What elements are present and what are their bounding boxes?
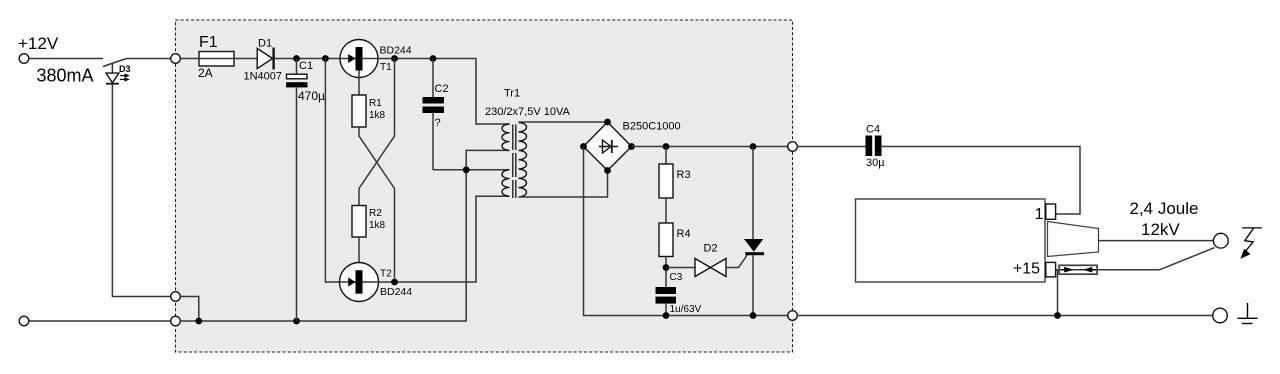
resistor R1 1k8 [352,95,386,127]
wire secondary bottom to bridge bottom corner [519,171,608,198]
svg-text:2,4 Joule: 2,4 Joule [1130,199,1199,218]
svg-text:+15: +15 [1013,261,1040,278]
wire center tap to primary top winding bottom [466,150,509,169]
svg-text:BD244: BD244 [380,45,412,57]
transistor T2 BD244 [340,263,413,302]
node junction ground rail / pin +15 [1054,312,1061,319]
primary winding lower [502,170,510,196]
node junction R4 / D2 / C3 [663,264,670,271]
wire +12V terminal to switch [29,58,103,60]
capacitor C3 1u/63V [656,272,702,316]
wire 0V terminal to border [29,320,171,322]
svg-text:1k8: 1k8 [369,220,386,231]
resistor R2 1k8 [352,206,386,238]
node HV output terminal [1213,233,1228,248]
node junction rail / T2 emitter branch [322,55,329,62]
wire T1 to transformer primary top [378,59,510,125]
resistor R3 [659,147,691,199]
svg-text:+12V: +12V [18,34,59,53]
wire border terminal to bottom rail [180,297,199,322]
wire cross-coupling rail to R2 [359,59,395,206]
svg-text:30µ: 30µ [866,157,885,169]
node junction bottom rail / C1 [293,318,300,325]
wire cross-coupling R1 to T2 collector node [359,127,395,282]
node +12V input terminal [18,34,94,86]
core [513,125,516,199]
wire border terminal to fuse [180,58,199,60]
svg-text:T2: T2 [380,269,392,280]
node junction rail / C1 [293,55,300,62]
wire R4 to C3/D2 node [665,257,667,288]
ignition coil body [856,199,1046,282]
pin 1 [1035,204,1056,223]
node junction center tap [463,166,470,173]
node left border terminal (0V) [171,316,181,326]
wire bridge minus to bottom right rail [584,147,792,316]
primary winding upper [502,124,510,150]
wire R2 to T2 [358,237,360,270]
svg-text:R4: R4 [677,228,691,240]
transistor T1 BD244 [340,40,412,96]
svg-text:2A: 2A [198,66,213,80]
svg-text:1: 1 [1035,206,1044,223]
thyristor Th1 [744,147,764,316]
fuse F1 [198,34,257,80]
wire bridge plus rail to border [632,146,788,148]
svg-text:Tr1: Tr1 [504,88,520,100]
wire pin +15 down to ground rail [1057,270,1059,316]
wire pin +15 through spark gap to diagonal [1056,269,1160,271]
node junction T2 collector / cross-coupling [391,279,398,286]
svg-text:C1: C1 [299,60,313,72]
svg-text:B250C1000: B250C1000 [623,121,681,133]
wire center tap line [433,169,510,171]
wire T2 emitter branch [325,59,340,283]
node ground output terminal [1213,308,1228,323]
svg-text:380mA: 380mA [37,66,94,86]
HV tower output [1048,222,1099,257]
svg-text:1N4007: 1N4007 [244,71,283,83]
ground symbol [1238,303,1258,324]
svg-text:BD244: BD244 [380,286,412,298]
node junction rail / C2 [430,55,437,62]
svg-text:C4: C4 [866,124,880,136]
lightning bolt symbol [1240,228,1262,259]
svg-text:R1: R1 [369,98,382,109]
svg-text:R2: R2 [369,208,382,219]
wire C4 to coil pin 1 [882,147,1081,215]
svg-text:C3: C3 [670,272,683,283]
svg-text:?: ? [435,117,441,129]
svg-text:D1: D1 [258,38,272,50]
node junction bottom rail / D3 return [195,318,202,325]
wire border to C4 [797,146,865,148]
resistor R4 [659,223,691,257]
svg-text:D2: D2 [704,243,718,255]
node junction plus rail / R3 [663,143,670,150]
node border terminal plus out [788,142,798,152]
node 0V input terminal [19,316,29,326]
pin +15 [1013,261,1056,278]
node junction bottom rail / thyristor [750,312,757,319]
svg-text:1u/63V: 1u/63V [670,304,702,315]
svg-text:470µ: 470µ [298,89,325,103]
wire bottom ground rail inside box [180,170,466,321]
switch S1 [103,59,171,67]
wire secondary top to bridge [519,121,608,123]
secondary winding [519,123,527,197]
wire HV tower to output terminal [1099,240,1214,242]
wire R3 to R4 [665,198,667,223]
wire bottom right ground rail [797,315,1212,317]
svg-text:F1: F1 [199,34,218,51]
svg-text:C2: C2 [435,83,449,95]
module boundary box (gray dashed) [176,20,793,352]
wire spark gap diagonal to HV terminal [1160,248,1215,270]
node junction bottom rail / C3 [663,312,670,319]
svg-text:R3: R3 [677,169,691,181]
wire D1 to T1 emitter [275,58,356,60]
capacitor C4 30u [866,124,886,170]
svg-text:D3: D3 [119,64,131,74]
node left border terminal (D3 return) [171,292,181,302]
spark gap [1059,265,1097,274]
capacitor C1 470u electrolytic [286,59,325,322]
capacitor C2 [423,59,449,170]
node border terminal minus out [788,311,798,321]
node junction rail / cross-coupling [391,55,398,62]
transformer Tr1 [485,88,570,199]
LED D3 [106,63,131,84]
svg-text:230/2x7,5V 10VA: 230/2x7,5V 10VA [485,106,570,118]
diode D1 1N4007 [244,38,283,83]
svg-text:1k8: 1k8 [369,110,386,121]
svg-text:T1: T1 [380,62,392,73]
node junction plus rail / thyristor [750,143,757,150]
diac D2 [666,243,748,277]
wire T2 collector to transformer primary bottom [378,196,510,282]
bridge rectifier B250C1000 [580,119,681,174]
node +12V border terminal [171,54,181,64]
svg-text:12kV: 12kV [1141,220,1180,239]
wire D3 down to left border terminal [112,85,170,297]
